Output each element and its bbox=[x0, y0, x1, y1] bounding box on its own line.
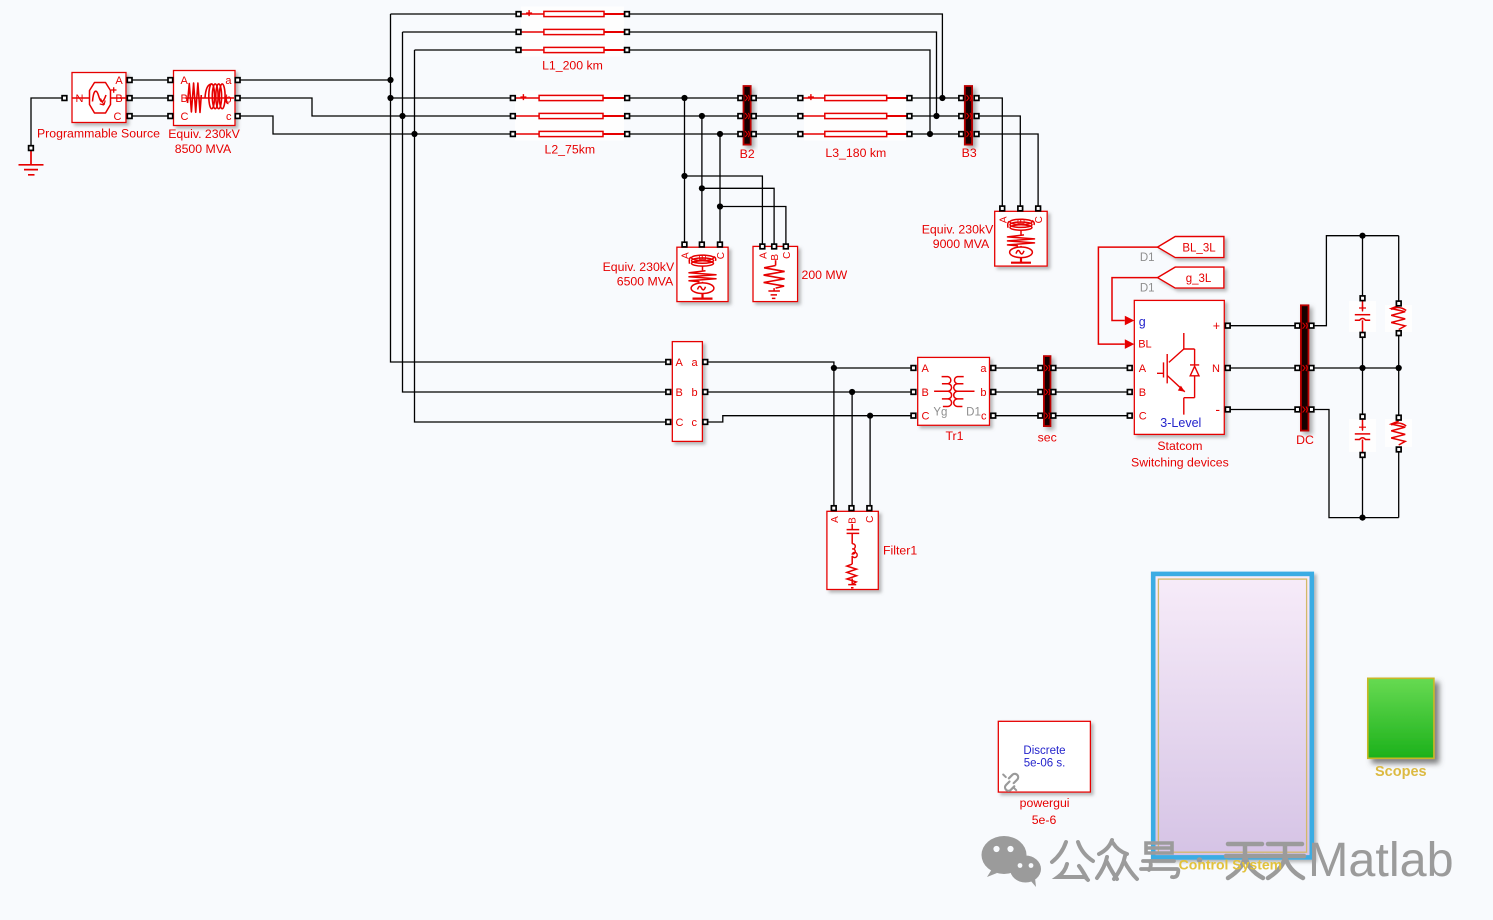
port L3 inC bbox=[798, 132, 803, 137]
svg-text:A: A bbox=[830, 516, 841, 523]
wire to L2 in A bbox=[391, 97, 511, 99]
wire branch B to 200MW B bbox=[702, 188, 774, 244]
wire source B to equiv B bbox=[132, 97, 168, 99]
port Statcom minus bbox=[1225, 407, 1230, 412]
watermark dot bbox=[1197, 857, 1203, 863]
bus DC bbox=[1301, 305, 1309, 430]
svg-text:c: c bbox=[692, 417, 698, 429]
svg-text:BL: BL bbox=[1138, 339, 1151, 351]
L3 block icon background bbox=[804, 91, 906, 141]
svg-text:a: a bbox=[980, 363, 987, 375]
wire to L2 in C bbox=[415, 133, 511, 135]
wire B2 A to L3 in A bbox=[756, 97, 798, 99]
wire L1 out B down to B3 row B bbox=[630, 32, 937, 116]
watermark chinese text tian tian bbox=[1226, 844, 1304, 878]
wire drop to Filter1 A bbox=[833, 368, 835, 506]
wire cap2 bottom lead bbox=[1362, 458, 1364, 518]
node branch 200MW C bbox=[717, 203, 723, 209]
port B2 rightC bbox=[751, 132, 756, 137]
svg-text:D1: D1 bbox=[1140, 252, 1155, 264]
wire conn a to Tr1 A bbox=[708, 362, 911, 368]
node c-L2C junction bbox=[411, 131, 417, 137]
filter block Filter1 bbox=[827, 511, 878, 589]
svg-text:C: C bbox=[114, 111, 122, 123]
bus sec port marks bbox=[1045, 365, 1050, 419]
port B3 rightC bbox=[974, 132, 979, 137]
capacitor C1 icon background bbox=[1349, 301, 1376, 332]
svg-text:A: A bbox=[181, 75, 189, 87]
wire to L2 in B bbox=[403, 115, 511, 117]
node a-L1A junction bbox=[387, 77, 393, 83]
three-phase source Equiv. 230kV 6500 MVA bbox=[677, 247, 728, 301]
wire res1 top lead bbox=[1398, 236, 1400, 301]
port DC rightM bbox=[1309, 407, 1314, 412]
wire cap1 top lead bbox=[1362, 236, 1364, 296]
bus B3 port marks bbox=[967, 95, 972, 137]
port Programmable Source C bbox=[127, 114, 132, 119]
wire equiv c jog to node bus1c bbox=[240, 116, 414, 134]
bus sec bbox=[1044, 356, 1051, 426]
port cap2 top bbox=[1360, 414, 1365, 419]
svg-text:c: c bbox=[981, 411, 987, 423]
svg-text:Scopes: Scopes bbox=[1375, 764, 1427, 780]
red wire BL_3L to BL input bbox=[1098, 247, 1157, 344]
port Filter1 B bbox=[849, 506, 854, 511]
svg-text:sec: sec bbox=[1038, 431, 1057, 445]
resistor R2 bbox=[1391, 421, 1406, 445]
port L1 inA bbox=[516, 12, 521, 17]
resistor R1 bbox=[1391, 306, 1406, 330]
node L2B branch bbox=[699, 113, 705, 119]
svg-text:3-Level: 3-Level bbox=[1160, 416, 1201, 430]
wire vertical phase A trunk bbox=[391, 14, 666, 362]
wire drop A to Equiv6500 A bbox=[684, 98, 686, 242]
port L3 outA bbox=[907, 96, 912, 101]
port Filter1 C bbox=[867, 506, 872, 511]
wire L2 out B to B2 B bbox=[630, 115, 738, 117]
svg-text:Switching devices: Switching devices bbox=[1131, 455, 1229, 469]
powergui block bbox=[998, 721, 1090, 792]
svg-text:A: A bbox=[1139, 363, 1147, 375]
three-phase source Equiv. 230kV 9000 MVA bbox=[995, 211, 1047, 266]
port sec rightA bbox=[1051, 366, 1056, 371]
svg-text:L2_75km: L2_75km bbox=[545, 142, 596, 156]
node N rail cap2 bbox=[1359, 365, 1365, 371]
port DC leftN bbox=[1295, 366, 1300, 371]
svg-text:a: a bbox=[225, 75, 232, 87]
port res1 top bbox=[1396, 301, 1401, 306]
node bottom rail cap2 bbox=[1359, 515, 1365, 521]
transmission line L1_200 km bbox=[522, 10, 624, 53]
input arrow BL bbox=[1125, 339, 1135, 349]
port Tr1 C bbox=[911, 413, 916, 418]
wire equiv b jog to node bus1b bbox=[240, 98, 402, 116]
node branch 200MW B bbox=[699, 185, 705, 191]
port L1 inB bbox=[516, 30, 521, 35]
svg-text:B: B bbox=[115, 93, 122, 105]
wire L3 out B to B3 B bbox=[912, 115, 959, 117]
wire drop to Filter1 C bbox=[869, 416, 871, 506]
node Tr1 A filter tap bbox=[831, 365, 837, 371]
node Tr1 B filter tap bbox=[849, 389, 855, 395]
port res2 bottom bbox=[1396, 447, 1401, 452]
transmission line L3_180 km bbox=[803, 94, 906, 136]
wire Statcom plus to DC bbox=[1230, 325, 1295, 327]
resistor R2 icon background bbox=[1385, 419, 1412, 447]
wire DC plus up to top rail bbox=[1314, 236, 1399, 326]
port conn B bbox=[666, 390, 671, 395]
port conn a bbox=[703, 360, 708, 365]
node a-L2A junction bbox=[387, 95, 393, 101]
wire drop to Filter1 B bbox=[851, 392, 853, 506]
capacitor C2 icon background bbox=[1349, 419, 1376, 452]
svg-text:DC: DC bbox=[1296, 433, 1314, 447]
svg-text:+: + bbox=[1213, 319, 1220, 333]
port Equiv8500 b bbox=[235, 96, 240, 101]
wire res2 bottom lead bbox=[1398, 452, 1400, 518]
port B2 rightB bbox=[751, 114, 756, 119]
port B3 rightA bbox=[974, 96, 979, 101]
node L2C branch bbox=[717, 131, 723, 137]
port L1 outA bbox=[625, 12, 630, 17]
svg-text:A: A bbox=[115, 75, 123, 87]
port L2 inB bbox=[511, 114, 516, 119]
wire L3 out A to B3 A bbox=[912, 97, 959, 99]
wire source C to equiv C bbox=[132, 115, 168, 117]
transformer Tr1 bbox=[918, 357, 990, 425]
port sec leftA bbox=[1038, 366, 1043, 371]
svg-text:C: C bbox=[1034, 216, 1045, 223]
svg-text:C: C bbox=[181, 111, 189, 123]
svg-text:Programmable Source: Programmable Source bbox=[37, 127, 160, 141]
svg-text:B2: B2 bbox=[740, 147, 755, 161]
wire res1 bottom lead bbox=[1398, 336, 1400, 368]
svg-text:-: - bbox=[1215, 401, 1220, 417]
bus B2 port marks bbox=[745, 95, 749, 137]
svg-text:D1: D1 bbox=[966, 406, 981, 418]
port sec rightC bbox=[1051, 413, 1056, 418]
resistor R1 icon background bbox=[1385, 305, 1412, 332]
wire branch A to 200MW A bbox=[685, 176, 763, 244]
svg-text:b: b bbox=[692, 387, 698, 399]
port DC rightP bbox=[1309, 323, 1314, 328]
port sec leftB bbox=[1038, 390, 1043, 395]
port Equiv6500 B bbox=[700, 242, 705, 247]
wire equiv a to node bus1a bbox=[240, 79, 390, 81]
port B3 leftC bbox=[959, 132, 964, 137]
svg-text:Equiv. 230kV: Equiv. 230kV bbox=[168, 127, 240, 141]
svg-text:B3: B3 bbox=[962, 146, 977, 160]
svg-text:B: B bbox=[770, 254, 781, 261]
svg-text:5e-6: 5e-6 bbox=[1032, 813, 1057, 827]
red wire g_3L to g input bbox=[1112, 278, 1158, 321]
wire conn b to Tr1 B bbox=[708, 391, 911, 393]
svg-text:Statcom: Statcom bbox=[1157, 439, 1202, 453]
svg-text:N: N bbox=[1212, 363, 1220, 375]
three-phase connector block A-a B-b C-c bbox=[672, 342, 702, 442]
port Equiv9000 C bbox=[1036, 206, 1041, 211]
node B3 C junction bbox=[927, 131, 933, 137]
svg-text:B: B bbox=[1139, 387, 1146, 399]
port Equiv6500 C bbox=[718, 242, 723, 247]
input arrow g bbox=[1125, 316, 1135, 326]
transmission line L2_75km bbox=[516, 94, 624, 136]
port conn A bbox=[666, 360, 671, 365]
svg-text:A: A bbox=[922, 363, 930, 375]
wire Tr1 a to sec bbox=[996, 367, 1038, 369]
wire L1 out A down to B3 row A bbox=[630, 14, 943, 98]
svg-text:C: C bbox=[865, 516, 876, 523]
svg-text:g_3L: g_3L bbox=[1186, 273, 1212, 285]
wire to L1 in C bbox=[415, 49, 517, 51]
wire to L1 in B bbox=[403, 31, 517, 33]
port B3 leftB bbox=[959, 114, 964, 119]
L2 block icon background bbox=[515, 91, 624, 141]
svg-text:L3_180 km: L3_180 km bbox=[825, 146, 886, 160]
wire B3 C to Equiv9000 C bbox=[979, 134, 1038, 206]
port DC rightN bbox=[1309, 366, 1314, 371]
port 200MW C bbox=[784, 244, 789, 249]
svg-text:200 MW: 200 MW bbox=[802, 268, 848, 282]
port cap1 bottom bbox=[1360, 333, 1365, 338]
svg-text:Control System: Control System bbox=[1179, 857, 1282, 873]
node L2A branch bbox=[681, 95, 687, 101]
Scopes subsystem block bbox=[1368, 678, 1434, 758]
port Tr1 B bbox=[911, 390, 916, 395]
port L3 outC bbox=[907, 132, 912, 137]
wire B3 B to Equiv9000 B bbox=[979, 116, 1020, 206]
svg-text:powergui: powergui bbox=[1020, 796, 1070, 810]
svg-text:B: B bbox=[676, 387, 683, 399]
port L3 outB bbox=[907, 114, 912, 119]
wire sec B to Statcom B bbox=[1056, 391, 1127, 393]
port L2 inA bbox=[511, 96, 516, 101]
wire drop B to Equiv6500 B bbox=[701, 116, 703, 242]
three-phase load 200 MW block bbox=[753, 246, 798, 301]
port B3 rightB bbox=[974, 114, 979, 119]
bus B2 bbox=[744, 86, 751, 145]
port L3 inB bbox=[798, 114, 803, 119]
port conn c bbox=[703, 420, 708, 425]
port DC leftP bbox=[1295, 323, 1300, 328]
port B3 leftA bbox=[959, 96, 964, 101]
port Tr1 A bbox=[911, 366, 916, 371]
subsystem Control System bbox=[1153, 574, 1312, 858]
svg-text:5e-06 s.: 5e-06 s. bbox=[1024, 758, 1066, 770]
wire conn c to Tr1 C bbox=[708, 416, 911, 422]
wire DC N row to resistor col bbox=[1314, 367, 1399, 369]
svg-text:BL_3L: BL_3L bbox=[1182, 242, 1216, 254]
L1 block icon background bbox=[521, 7, 624, 57]
Equiv. 230kV 8500 MVA block bbox=[174, 71, 236, 126]
svg-text:N: N bbox=[76, 93, 84, 105]
port L2 outC bbox=[625, 132, 630, 137]
port Equiv8500 A bbox=[168, 78, 173, 83]
wire sec A to Statcom A bbox=[1056, 367, 1127, 369]
wire vertical phase B trunk bbox=[403, 32, 666, 392]
node Tr1 C filter tap bbox=[867, 413, 873, 419]
port conn b bbox=[703, 390, 708, 395]
wire source A to equiv A bbox=[132, 79, 168, 81]
capacitor C1 bbox=[1355, 298, 1370, 335]
svg-text:Equiv. 230kV: Equiv. 230kV bbox=[922, 222, 994, 236]
node B3 A junction bbox=[939, 95, 945, 101]
port sec rightB bbox=[1051, 390, 1056, 395]
port DC leftM bbox=[1295, 407, 1300, 412]
wire res2 top lead bbox=[1398, 368, 1400, 415]
From tag BL_3L bbox=[1158, 237, 1224, 258]
svg-text:C: C bbox=[676, 417, 684, 429]
port Tr1 b bbox=[991, 390, 996, 395]
svg-text:b: b bbox=[980, 387, 986, 399]
wire branch C to 200MW C bbox=[720, 207, 786, 244]
wire L1 out C down to B3 row C bbox=[630, 50, 931, 134]
svg-text:C: C bbox=[716, 252, 727, 259]
port B2 leftB bbox=[738, 114, 743, 119]
svg-text:L1_200 km: L1_200 km bbox=[542, 59, 603, 73]
wire to L1 in A bbox=[391, 13, 517, 15]
port Filter1 A bbox=[831, 506, 836, 511]
port cap2 bottom bbox=[1360, 453, 1365, 458]
wire Statcom minus to DC bbox=[1230, 409, 1295, 411]
svg-text:C: C bbox=[782, 252, 793, 259]
port L1 outC bbox=[625, 48, 630, 53]
bus DC port marks bbox=[1303, 323, 1308, 413]
wire B3 A to Equiv9000 A bbox=[979, 98, 1002, 206]
svg-text:D1: D1 bbox=[1140, 283, 1155, 295]
svg-text:A: A bbox=[758, 252, 769, 259]
wire L2 out A to B2 A bbox=[630, 97, 738, 99]
svg-text:g: g bbox=[1139, 315, 1146, 329]
node N rail res bbox=[1396, 365, 1402, 371]
port L2 inC bbox=[511, 132, 516, 137]
From tag g_3L bbox=[1158, 267, 1224, 288]
wire L3 out C to B3 C bbox=[912, 133, 959, 135]
wire DC minus down to bottom rail bbox=[1314, 410, 1399, 518]
port L1 inC bbox=[516, 48, 521, 53]
port Equiv8500 a bbox=[235, 78, 240, 83]
svg-text:A: A bbox=[676, 357, 684, 369]
wire vertical phase C trunk bbox=[415, 50, 666, 422]
capacitor C2 bbox=[1355, 418, 1370, 455]
port 200MW B bbox=[772, 244, 777, 249]
wire L2 out C to B2 C bbox=[630, 133, 738, 135]
port Tr1 a bbox=[991, 366, 996, 371]
svg-text:Matlab: Matlab bbox=[1308, 833, 1454, 887]
port Statcom plus bbox=[1225, 323, 1230, 328]
port Statcom N bbox=[1225, 366, 1230, 371]
svg-text:Discrete: Discrete bbox=[1023, 745, 1065, 757]
port L2 outB bbox=[625, 114, 630, 119]
svg-text:C: C bbox=[922, 411, 930, 423]
port Statcom C bbox=[1127, 413, 1132, 418]
port Equiv9000 B bbox=[1018, 206, 1023, 211]
svg-text:9000 MVA: 9000 MVA bbox=[933, 237, 990, 251]
node B3 B junction bbox=[933, 113, 939, 119]
ground symbol bbox=[19, 151, 44, 175]
port B2 leftC bbox=[738, 132, 743, 137]
port Programmable Source A bbox=[127, 78, 132, 83]
port Tr1 c bbox=[991, 413, 996, 418]
svg-text:8500 MVA: 8500 MVA bbox=[175, 142, 232, 156]
svg-text:B: B bbox=[922, 387, 929, 399]
wire B2 C to L3 in C bbox=[756, 133, 798, 135]
wire Statcom N to DC bbox=[1230, 367, 1295, 369]
port Programmable Source B bbox=[127, 96, 132, 101]
svg-text:Yg: Yg bbox=[933, 406, 947, 418]
wire B2 B to L3 in B bbox=[756, 115, 798, 117]
port res1 bottom bbox=[1396, 331, 1401, 336]
svg-text:Filter1: Filter1 bbox=[883, 543, 917, 557]
wire sec C to Statcom C bbox=[1056, 415, 1127, 417]
port B2 leftA bbox=[738, 96, 743, 101]
svg-text:B: B bbox=[181, 93, 188, 105]
port B2 rightA bbox=[751, 96, 756, 101]
port 200MW A bbox=[760, 244, 765, 249]
watermark chinese text bbox=[1052, 840, 1178, 880]
svg-text:6500 MVA: 6500 MVA bbox=[617, 275, 674, 289]
wire drop C to Equiv6500 C bbox=[719, 134, 721, 242]
port L1 outB bbox=[625, 30, 630, 35]
wire Tr1 c to sec bbox=[996, 415, 1038, 417]
svg-text:Equiv. 230kV: Equiv. 230kV bbox=[603, 260, 675, 274]
node top rail cap1 bbox=[1359, 233, 1365, 239]
port Ground bbox=[29, 146, 34, 151]
wire Tr1 b to sec bbox=[996, 391, 1038, 393]
port L2 outA bbox=[625, 96, 630, 101]
port Equiv8500 B bbox=[168, 96, 173, 101]
bus B3 bbox=[965, 86, 972, 145]
port conn C bbox=[666, 420, 671, 425]
watermark wechat icon bbox=[982, 836, 1042, 887]
port sec leftC bbox=[1038, 413, 1043, 418]
port Statcom B bbox=[1127, 390, 1132, 395]
port L3 inA bbox=[798, 96, 803, 101]
node b-L2B junction bbox=[399, 113, 405, 119]
Statcom 3-Level switching devices block bbox=[1134, 300, 1224, 434]
port Equiv9000 A bbox=[1000, 206, 1005, 211]
port Equiv8500 c bbox=[235, 114, 240, 119]
Programmable Source block bbox=[72, 73, 126, 123]
wire source N to ground bbox=[31, 98, 65, 146]
svg-text:B: B bbox=[848, 517, 859, 524]
wire cap2 top lead bbox=[1362, 368, 1364, 414]
svg-text:c: c bbox=[226, 111, 232, 123]
port Equiv6500 A bbox=[682, 242, 687, 247]
port cap1 top bbox=[1360, 296, 1365, 301]
svg-text:a: a bbox=[692, 357, 699, 369]
port res2 top bbox=[1396, 415, 1401, 420]
port Statcom A bbox=[1127, 366, 1132, 371]
svg-text:Tr1: Tr1 bbox=[946, 429, 964, 443]
svg-text:C: C bbox=[1139, 411, 1147, 423]
wire cap1 bottom lead bbox=[1362, 337, 1364, 368]
port Programmable Source N bbox=[62, 96, 67, 101]
port Equiv8500 C bbox=[168, 114, 173, 119]
node branch 200MW A bbox=[681, 173, 687, 179]
